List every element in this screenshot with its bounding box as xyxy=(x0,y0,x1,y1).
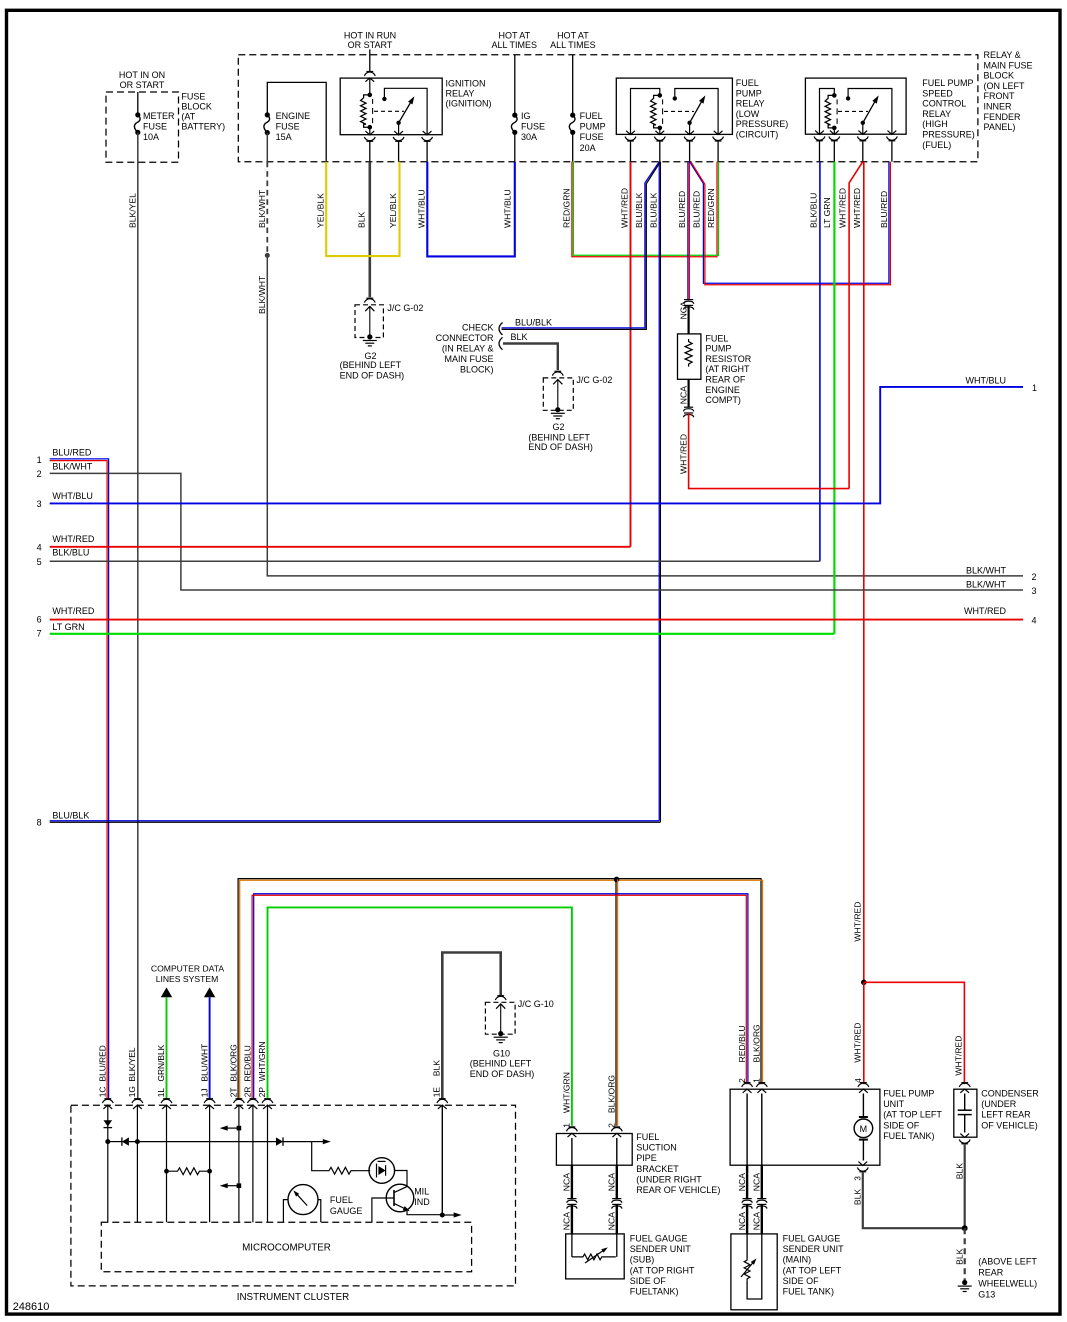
junction connector J/C G-02 #2 xyxy=(554,370,561,372)
svg-text:WHT/RED: WHT/RED xyxy=(852,188,862,228)
svg-text:OF VEHICLE): OF VEHICLE) xyxy=(981,1120,1038,1130)
wire NCA suction bracket to sub sender pin 2 xyxy=(616,1165,618,1198)
svg-text:COMPT): COMPT) xyxy=(705,395,741,405)
svg-text:BLK: BLK xyxy=(357,211,367,228)
instrument cluster pin 1G connector xyxy=(134,1098,141,1100)
wire WHT/RED continues to fuel pump unit pin 4 xyxy=(863,982,865,1084)
svg-text:FUEL TANK): FUEL TANK) xyxy=(883,1131,934,1141)
wire BLK from check connector to J/C G-02 xyxy=(503,344,558,371)
wire BLU/RED relay pin 3 down to fuel pump resistor xyxy=(687,162,689,300)
fuel pump unit box xyxy=(730,1089,880,1165)
svg-text:BLK: BLK xyxy=(432,1060,442,1077)
cluster bus with diodes xyxy=(105,1139,110,1144)
svg-text:IG: IG xyxy=(521,111,531,121)
svg-text:MAIN FUSE: MAIN FUSE xyxy=(984,60,1033,70)
svg-text:BLU/BLK: BLU/BLK xyxy=(634,192,644,228)
svg-text:END OF DASH): END OF DASH) xyxy=(470,1069,535,1079)
svg-text:HOT IN ON: HOT IN ON xyxy=(119,70,165,80)
svg-text:ALL TIMES: ALL TIMES xyxy=(492,40,538,50)
svg-text:FUEL: FUEL xyxy=(580,111,603,121)
svg-text:CHECK: CHECK xyxy=(462,323,494,333)
fuel pump unit pin 3 connector xyxy=(858,1162,867,1166)
svg-text:WHT/BLU: WHT/BLU xyxy=(52,491,93,501)
svg-text:BLU/RED: BLU/RED xyxy=(677,191,687,228)
fuel pump relay (low pressure) box xyxy=(616,78,732,134)
svg-text:NCA: NCA xyxy=(678,301,688,319)
resistor to MOSFET xyxy=(326,1167,354,1174)
wire BLK/ORG from cluster 2T to suction bracket and fuel pump unit xyxy=(238,879,761,1099)
svg-text:WHT/BLU: WHT/BLU xyxy=(966,375,1007,385)
wire feed to meter fuse xyxy=(137,92,139,115)
svg-text:RELAY &: RELAY & xyxy=(984,50,1021,60)
svg-text:BLU/RED: BLU/RED xyxy=(879,191,889,228)
svg-text:NCA: NCA xyxy=(752,1173,762,1191)
svg-text:BLK/WHT: BLK/WHT xyxy=(52,461,93,471)
svg-text:1C: 1C xyxy=(98,1087,108,1098)
wire WHT/RED branch to condenser xyxy=(861,980,867,986)
svg-text:SPEED: SPEED xyxy=(922,88,953,98)
svg-text:1L: 1L xyxy=(156,1088,166,1098)
svg-text:RED/GRN: RED/GRN xyxy=(562,188,572,228)
speed control relay pin 4 connector xyxy=(888,131,897,135)
svg-text:BLU/RED: BLU/RED xyxy=(52,447,92,457)
svg-text:OR START: OR START xyxy=(348,40,393,50)
wire BLK pump pin 3 to splice xyxy=(863,1172,965,1228)
svg-text:4: 4 xyxy=(853,1078,863,1083)
cluster wire 1J internal xyxy=(209,1105,211,1222)
svg-text:WHT/RED: WHT/RED xyxy=(853,901,863,941)
ignition relay pin 3 connector xyxy=(423,131,432,135)
svg-text:(MAIN): (MAIN) xyxy=(783,1255,812,1265)
svg-text:FUEL: FUEL xyxy=(705,333,728,343)
svg-text:LT GRN: LT GRN xyxy=(822,197,832,228)
wire BLK/WHT solid down then right to connector 2 xyxy=(267,255,1023,576)
svg-text:J/C G-02: J/C G-02 xyxy=(387,303,423,313)
wire RED/BLU from cluster 2R to fuel pump unit pin 2 xyxy=(254,894,748,1099)
svg-text:HOT AT: HOT AT xyxy=(557,31,589,41)
instrument cluster pin 1E connector xyxy=(439,1098,446,1100)
svg-text:BLK: BLK xyxy=(954,1248,964,1265)
junction connector J/C G-02 (ignition BLK) xyxy=(366,297,373,299)
svg-text:PUMP: PUMP xyxy=(705,344,731,354)
svg-text:(IGNITION): (IGNITION) xyxy=(446,99,492,109)
svg-text:(AT RIGHT: (AT RIGHT xyxy=(705,364,750,374)
svg-text:20A: 20A xyxy=(580,143,596,153)
wire BLU/BLK branch (diagonal) to check connector xyxy=(502,162,660,328)
svg-text:HOT AT: HOT AT xyxy=(498,31,530,41)
wire WHT/GRN from cluster 2P to suction bracket pin 1 xyxy=(268,907,572,1126)
svg-text:SENDER UNIT: SENDER UNIT xyxy=(783,1244,845,1254)
svg-text:3: 3 xyxy=(853,1176,863,1181)
svg-text:BLU/RED: BLU/RED xyxy=(692,191,702,228)
speed control relay switch arm xyxy=(861,121,865,125)
instrument cluster dashed box xyxy=(71,1105,516,1286)
svg-text:(IN RELAY &: (IN RELAY & xyxy=(442,344,494,354)
svg-text:FUSE: FUSE xyxy=(521,122,545,132)
cluster wire 2T internal xyxy=(238,1105,240,1222)
svg-text:WHT/BLU: WHT/BLU xyxy=(503,189,513,228)
svg-text:FENDER: FENDER xyxy=(984,112,1022,122)
svg-text:(CIRCUIT): (CIRCUIT) xyxy=(736,130,779,140)
svg-text:BLK/BLU: BLK/BLU xyxy=(52,547,89,557)
ground G2 #2 xyxy=(555,407,560,412)
svg-text:BLU/BLK: BLU/BLK xyxy=(52,810,89,820)
ignition relay switch arm xyxy=(396,121,400,125)
svg-text:BLK/WHT: BLK/WHT xyxy=(966,565,1007,575)
svg-text:SIDE OF: SIDE OF xyxy=(630,1276,667,1286)
svg-text:G2: G2 xyxy=(552,422,564,432)
wire BLK/YEL from meter fuse to instrument cluster 1G xyxy=(137,132,139,1098)
MOSFET to transistor xyxy=(395,1171,407,1187)
svg-text:RELAY: RELAY xyxy=(736,99,765,109)
fuel pump resistor box xyxy=(687,305,689,334)
svg-text:G10: G10 xyxy=(493,1048,510,1058)
splice dot xyxy=(962,1225,968,1231)
sub sender variable resistor xyxy=(571,1234,573,1257)
svg-text:2: 2 xyxy=(37,469,42,479)
svg-text:(UNDER RIGHT: (UNDER RIGHT xyxy=(636,1174,702,1184)
check connector terminal 2 xyxy=(499,337,503,349)
svg-text:(AT: (AT xyxy=(181,112,195,122)
svg-text:RELAY: RELAY xyxy=(446,89,475,99)
svg-text:(ABOVE LEFT: (ABOVE LEFT xyxy=(978,1257,1037,1267)
transistor emitter to 1E BLK xyxy=(407,1211,442,1215)
fuel pump speed control relay box xyxy=(805,78,906,134)
MIL indicator transistor xyxy=(386,1184,414,1212)
svg-text:2: 2 xyxy=(737,1078,747,1083)
wire RED/GRN U: fuel pump fuse to relay pin 4 xyxy=(572,162,717,257)
svg-text:WHT/RED: WHT/RED xyxy=(52,606,94,616)
svg-text:(LOW: (LOW xyxy=(736,109,760,119)
ignition relay coil xyxy=(369,78,371,95)
arrow tap on 2T (upper) xyxy=(237,1126,242,1131)
diode on 1C line (pointing down) xyxy=(104,1120,113,1126)
instrument cluster pin 2R connector xyxy=(250,1098,257,1100)
wire BLK dashed to ground G13 xyxy=(964,1228,966,1280)
bus branch down to MIL driver xyxy=(312,1142,326,1171)
svg-text:SENDER UNIT: SENDER UNIT xyxy=(630,1244,692,1254)
cluster wire 1G internal xyxy=(136,1105,138,1222)
wire NCA suction bracket to sub sender pin 1 xyxy=(571,1165,573,1198)
instrument cluster pin 2T connector xyxy=(236,1098,243,1100)
svg-text:3: 3 xyxy=(1032,586,1037,596)
svg-text:(SUB): (SUB) xyxy=(630,1255,655,1265)
cluster wire 2R internal xyxy=(252,1105,254,1222)
svg-text:OR START: OR START xyxy=(120,80,165,90)
svg-text:END OF DASH): END OF DASH) xyxy=(340,371,405,381)
svg-text:REAR OF: REAR OF xyxy=(705,375,746,385)
fuel gauge sender unit (main) box xyxy=(731,1234,777,1310)
wire BLK condenser to splice xyxy=(964,1144,966,1228)
svg-text:BLK/WHT: BLK/WHT xyxy=(257,189,267,228)
arrow tap on 2T (lower) xyxy=(237,1183,242,1188)
svg-text:RELAY: RELAY xyxy=(922,109,951,119)
svg-text:FUEL: FUEL xyxy=(636,1132,659,1142)
speed control relay pin 2 connector xyxy=(830,131,839,135)
svg-text:1: 1 xyxy=(1032,383,1037,393)
svg-text:10A: 10A xyxy=(143,132,159,142)
suction bracket pin 1 connector xyxy=(569,1126,576,1128)
wire GRN/BLK cluster 1L to data line xyxy=(166,997,168,1098)
low pressure relay coil + internals xyxy=(631,89,660,135)
NCA wires fuel pump unit to main sender xyxy=(746,1165,748,1198)
svg-text:FUSE: FUSE xyxy=(580,132,604,142)
fuel pump unit pin 2 connector xyxy=(744,1082,751,1084)
svg-text:FUELTANK): FUELTANK) xyxy=(630,1287,679,1297)
svg-text:BLK/BLU: BLK/BLU xyxy=(809,193,819,228)
svg-text:IND: IND xyxy=(414,1197,430,1207)
svg-text:3: 3 xyxy=(37,499,42,509)
svg-text:(AT TOP LEFT: (AT TOP LEFT xyxy=(883,1110,942,1120)
svg-text:NCA: NCA xyxy=(737,1212,747,1230)
wire WHT/RED speed relay pin 3 (diagonal) to resistor return xyxy=(849,162,863,489)
svg-text:FRONT: FRONT xyxy=(984,91,1015,101)
resistor between 1L and 1J xyxy=(164,1169,169,1174)
svg-text:LINES SYSTEM: LINES SYSTEM xyxy=(156,974,219,984)
svg-text:YEL/BLK: YEL/BLK xyxy=(388,193,398,228)
svg-text:BLK/ORG: BLK/ORG xyxy=(752,1024,762,1063)
svg-text:GAUGE: GAUGE xyxy=(330,1206,363,1216)
ignition relay mechanical link (dashed) xyxy=(374,110,404,112)
ignition relay fixed contact xyxy=(382,97,386,101)
wire BLK from ignition relay pin 1 xyxy=(369,141,371,161)
svg-text:2P: 2P xyxy=(257,1087,267,1098)
svg-text:REAR: REAR xyxy=(978,1268,1004,1278)
speed control relay fixed contact xyxy=(846,96,850,100)
wire BLK/ORG drop to suction bracket pin 2 xyxy=(615,879,617,1126)
svg-text:1J: 1J xyxy=(199,1088,209,1097)
wire BLU/WHT cluster 1J to data line xyxy=(209,997,211,1098)
speed control relay pin 3 connector xyxy=(858,131,867,135)
svg-text:INSTRUMENT CLUSTER: INSTRUMENT CLUSTER xyxy=(237,1292,350,1303)
svg-text:M: M xyxy=(860,1124,868,1134)
cluster wire 2P internal xyxy=(267,1105,269,1222)
svg-text:METER: METER xyxy=(143,111,175,121)
fuel pump unit pin 1 connector xyxy=(758,1082,765,1084)
ignition relay box xyxy=(340,78,442,135)
svg-text:FUEL: FUEL xyxy=(330,1195,353,1205)
bracket internal wires xyxy=(571,1138,573,1165)
junction dot BLK/ORG xyxy=(614,877,620,883)
svg-text:NCA: NCA xyxy=(607,1173,617,1191)
svg-text:COMPUTER DATA: COMPUTER DATA xyxy=(151,964,224,974)
svg-text:(HIGH: (HIGH xyxy=(922,119,948,129)
svg-text:UNIT: UNIT xyxy=(883,1099,904,1109)
engine fuse 15A feed xyxy=(267,82,326,161)
svg-text:SIDE OF: SIDE OF xyxy=(883,1120,920,1130)
ignition relay pin 1 connector xyxy=(365,131,374,135)
low pressure relay pin 1 connector xyxy=(626,131,635,135)
svg-text:BLU/WHT: BLU/WHT xyxy=(199,1044,209,1082)
junction connector J/C G-10 xyxy=(497,995,504,997)
svg-text:WHEELWELL): WHEELWELL) xyxy=(978,1279,1037,1289)
svg-text:PIPE: PIPE xyxy=(636,1153,657,1163)
IG fuse 30A feed xyxy=(514,55,516,115)
svg-text:BLK/WHT: BLK/WHT xyxy=(257,275,267,314)
NCA connector below fuel pump resistor xyxy=(687,379,689,407)
instrument cluster pin 1J connector xyxy=(206,1098,213,1100)
wire BLU/BLK relay pin 2 straight down to line 8 xyxy=(658,162,660,821)
svg-text:LT GRN: LT GRN xyxy=(52,622,84,632)
pump unit internal wires pins 2,1 xyxy=(746,1094,748,1166)
arrow to computer data line (GRN/BLK) xyxy=(161,987,172,997)
svg-text:BLK: BLK xyxy=(511,332,528,342)
svg-text:MAIN FUSE: MAIN FUSE xyxy=(444,354,493,364)
IG fuse 30A xyxy=(512,113,517,118)
svg-text:248610: 248610 xyxy=(13,1301,50,1313)
fuel suction pipe bracket box xyxy=(556,1134,632,1166)
engine fuse 15A xyxy=(265,112,270,117)
svg-text:NCA: NCA xyxy=(562,1212,572,1230)
diode on bus pointing right xyxy=(276,1137,283,1145)
svg-text:7: 7 xyxy=(37,628,42,638)
svg-text:BLK: BLK xyxy=(954,1163,964,1180)
svg-text:BLOCK): BLOCK) xyxy=(460,365,494,375)
wire WHT/BLU U: relay pin 3 to IG fuse xyxy=(427,162,515,257)
wire WHT/RED resistor return to speed relay pin 3 branch xyxy=(689,413,850,489)
wire stubs pins 2,3 to fuse block edge xyxy=(398,141,400,161)
svg-text:FUEL GAUGE: FUEL GAUGE xyxy=(630,1234,688,1244)
svg-text:ALL TIMES: ALL TIMES xyxy=(550,40,596,50)
svg-text:NCA: NCA xyxy=(607,1212,617,1230)
svg-text:MICROCOMPUTER: MICROCOMPUTER xyxy=(242,1242,331,1253)
svg-text:CONDENSER: CONDENSER xyxy=(981,1089,1039,1099)
svg-text:FUSE: FUSE xyxy=(181,92,205,102)
svg-text:6: 6 xyxy=(37,615,42,625)
fuel pump motor M xyxy=(862,1094,864,1118)
low pressure relay pin 4 connector xyxy=(714,131,723,135)
MOSFET driver circle xyxy=(369,1158,395,1184)
pin stubs to fuse block bottom xyxy=(630,141,632,162)
cluster wire 1L internal xyxy=(166,1105,168,1222)
condenser box xyxy=(954,1089,977,1137)
diode on bus pointing left xyxy=(121,1137,123,1145)
svg-text:WHT/RED: WHT/RED xyxy=(678,434,688,474)
svg-text:WHT/RED: WHT/RED xyxy=(954,1035,964,1075)
svg-text:ENGINE: ENGINE xyxy=(705,385,740,395)
svg-text:5: 5 xyxy=(37,557,42,567)
wire BLK instrument cluster 1E to J/C G-10 xyxy=(442,953,500,1099)
svg-text:BLK/ORG: BLK/ORG xyxy=(607,1075,617,1114)
instrument cluster pin 1C connector xyxy=(104,1098,111,1100)
svg-text:FUEL PUMP: FUEL PUMP xyxy=(883,1089,934,1099)
svg-text:MIL: MIL xyxy=(414,1187,429,1197)
svg-text:WHT/RED: WHT/RED xyxy=(964,606,1006,616)
svg-text:BLK/YEL: BLK/YEL xyxy=(128,193,138,228)
wire BLK/BLU speed relay pin 1 down to line 5 xyxy=(819,162,821,562)
fuel pump resistor element xyxy=(685,339,692,367)
ignition relay pin 2 connector xyxy=(394,131,403,135)
arrow to computer data line (BLU/WHT) xyxy=(204,987,215,997)
condenser bottom connector xyxy=(960,1134,969,1138)
fuel pump unit pin 4 connector xyxy=(860,1082,867,1084)
svg-text:BLU/BLK: BLU/BLK xyxy=(515,317,552,327)
low pressure relay mechanical link xyxy=(664,110,694,112)
svg-text:NCA: NCA xyxy=(562,1173,572,1191)
low pressure relay fixed contact xyxy=(673,96,677,100)
wire WHT/RED relay pin 1 down to line 4 xyxy=(630,162,632,547)
svg-text:4: 4 xyxy=(1032,615,1037,625)
svg-text:SUCTION: SUCTION xyxy=(636,1143,677,1153)
transistor base lead to microcomputer xyxy=(372,1198,394,1222)
svg-text:(AT TOP RIGHT: (AT TOP RIGHT xyxy=(630,1265,695,1275)
svg-text:CONNECTOR: CONNECTOR xyxy=(436,333,494,343)
fuel pump fuse 20A xyxy=(570,113,575,118)
speed control relay mechanical link xyxy=(838,110,868,112)
svg-text:GRN/BLK: GRN/BLK xyxy=(156,1044,166,1081)
svg-text:J/C G-10: J/C G-10 xyxy=(518,999,554,1009)
NCA connector above fuel pump resistor xyxy=(684,299,693,301)
svg-text:(FUEL): (FUEL) xyxy=(922,140,951,150)
svg-text:WHT/GRN: WHT/GRN xyxy=(257,1041,267,1081)
ground G10 xyxy=(498,1031,503,1036)
svg-text:RED/GRN: RED/GRN xyxy=(706,188,716,228)
wire WHT/RED speed relay pin 3 straight down to fuel pump unit pin 4 xyxy=(863,162,865,981)
wire BLK/WHT below engine fuse (dashed section) xyxy=(266,133,268,162)
wire LT GRN speed relay pin 2 down to line 7 xyxy=(833,162,835,634)
low pressure relay pin 2 connector xyxy=(655,131,664,135)
relay & main fuse block dashed box xyxy=(238,55,978,162)
svg-text:PUMP: PUMP xyxy=(736,88,762,98)
svg-text:NCA: NCA xyxy=(752,1212,762,1230)
svg-text:NCA: NCA xyxy=(737,1173,747,1191)
svg-text:FUEL GAUGE: FUEL GAUGE xyxy=(783,1234,841,1244)
low pressure relay pin 3 connector xyxy=(685,131,694,135)
svg-text:4: 4 xyxy=(37,543,42,553)
fuel gauge xyxy=(288,1185,318,1215)
condenser top connector xyxy=(961,1082,968,1084)
ground G13 xyxy=(962,1280,967,1285)
svg-text:IGNITION: IGNITION xyxy=(446,79,486,89)
svg-text:2: 2 xyxy=(607,1123,617,1128)
svg-text:PRESSURE): PRESSURE) xyxy=(736,119,789,129)
svg-text:FUSE: FUSE xyxy=(143,122,167,132)
svg-text:(ON LEFT: (ON LEFT xyxy=(984,81,1026,91)
svg-text:ENGINE: ENGINE xyxy=(276,111,311,121)
ground G2 xyxy=(367,334,372,339)
fuel pump fuse 20A feed xyxy=(572,55,574,115)
cluster wire 1C internal xyxy=(107,1105,109,1222)
svg-text:BATTERY): BATTERY) xyxy=(181,122,225,132)
svg-text:2R: 2R xyxy=(243,1087,253,1098)
svg-text:PANEL): PANEL) xyxy=(984,122,1016,132)
wire YEL/BLK U: relay pin 2 to engine fuse riser xyxy=(326,162,399,256)
svg-text:YEL/BLK: YEL/BLK xyxy=(316,193,326,228)
instrument cluster pin 1L connector xyxy=(163,1098,170,1100)
svg-text:1: 1 xyxy=(752,1078,762,1083)
wire 1E internal xyxy=(441,1105,443,1215)
svg-text:FUEL TANK): FUEL TANK) xyxy=(783,1287,834,1297)
svg-text:NCA: NCA xyxy=(678,386,688,404)
svg-text:1: 1 xyxy=(37,455,42,465)
svg-text:PUMP: PUMP xyxy=(580,122,606,132)
bus continues with right arrow xyxy=(312,1141,325,1143)
svg-text:FUEL: FUEL xyxy=(736,78,759,88)
svg-text:INNER: INNER xyxy=(984,102,1013,112)
svg-text:WHT/RED: WHT/RED xyxy=(838,188,848,228)
svg-text:2T: 2T xyxy=(229,1088,239,1098)
svg-text:RED/BLU: RED/BLU xyxy=(737,1025,747,1062)
junction dot on BLK/WHT xyxy=(265,253,270,258)
svg-text:BLOCK: BLOCK xyxy=(984,71,1015,81)
svg-text:WHT/GRN: WHT/GRN xyxy=(562,1072,572,1113)
svg-text:15A: 15A xyxy=(276,132,292,142)
svg-text:HOT IN RUN: HOT IN RUN xyxy=(344,31,396,41)
svg-text:FUEL PUMP: FUEL PUMP xyxy=(922,78,973,88)
svg-text:BLU/BLK: BLU/BLK xyxy=(649,192,659,228)
svg-text:1G: 1G xyxy=(127,1086,137,1097)
svg-text:LEFT REAR: LEFT REAR xyxy=(981,1110,1031,1120)
